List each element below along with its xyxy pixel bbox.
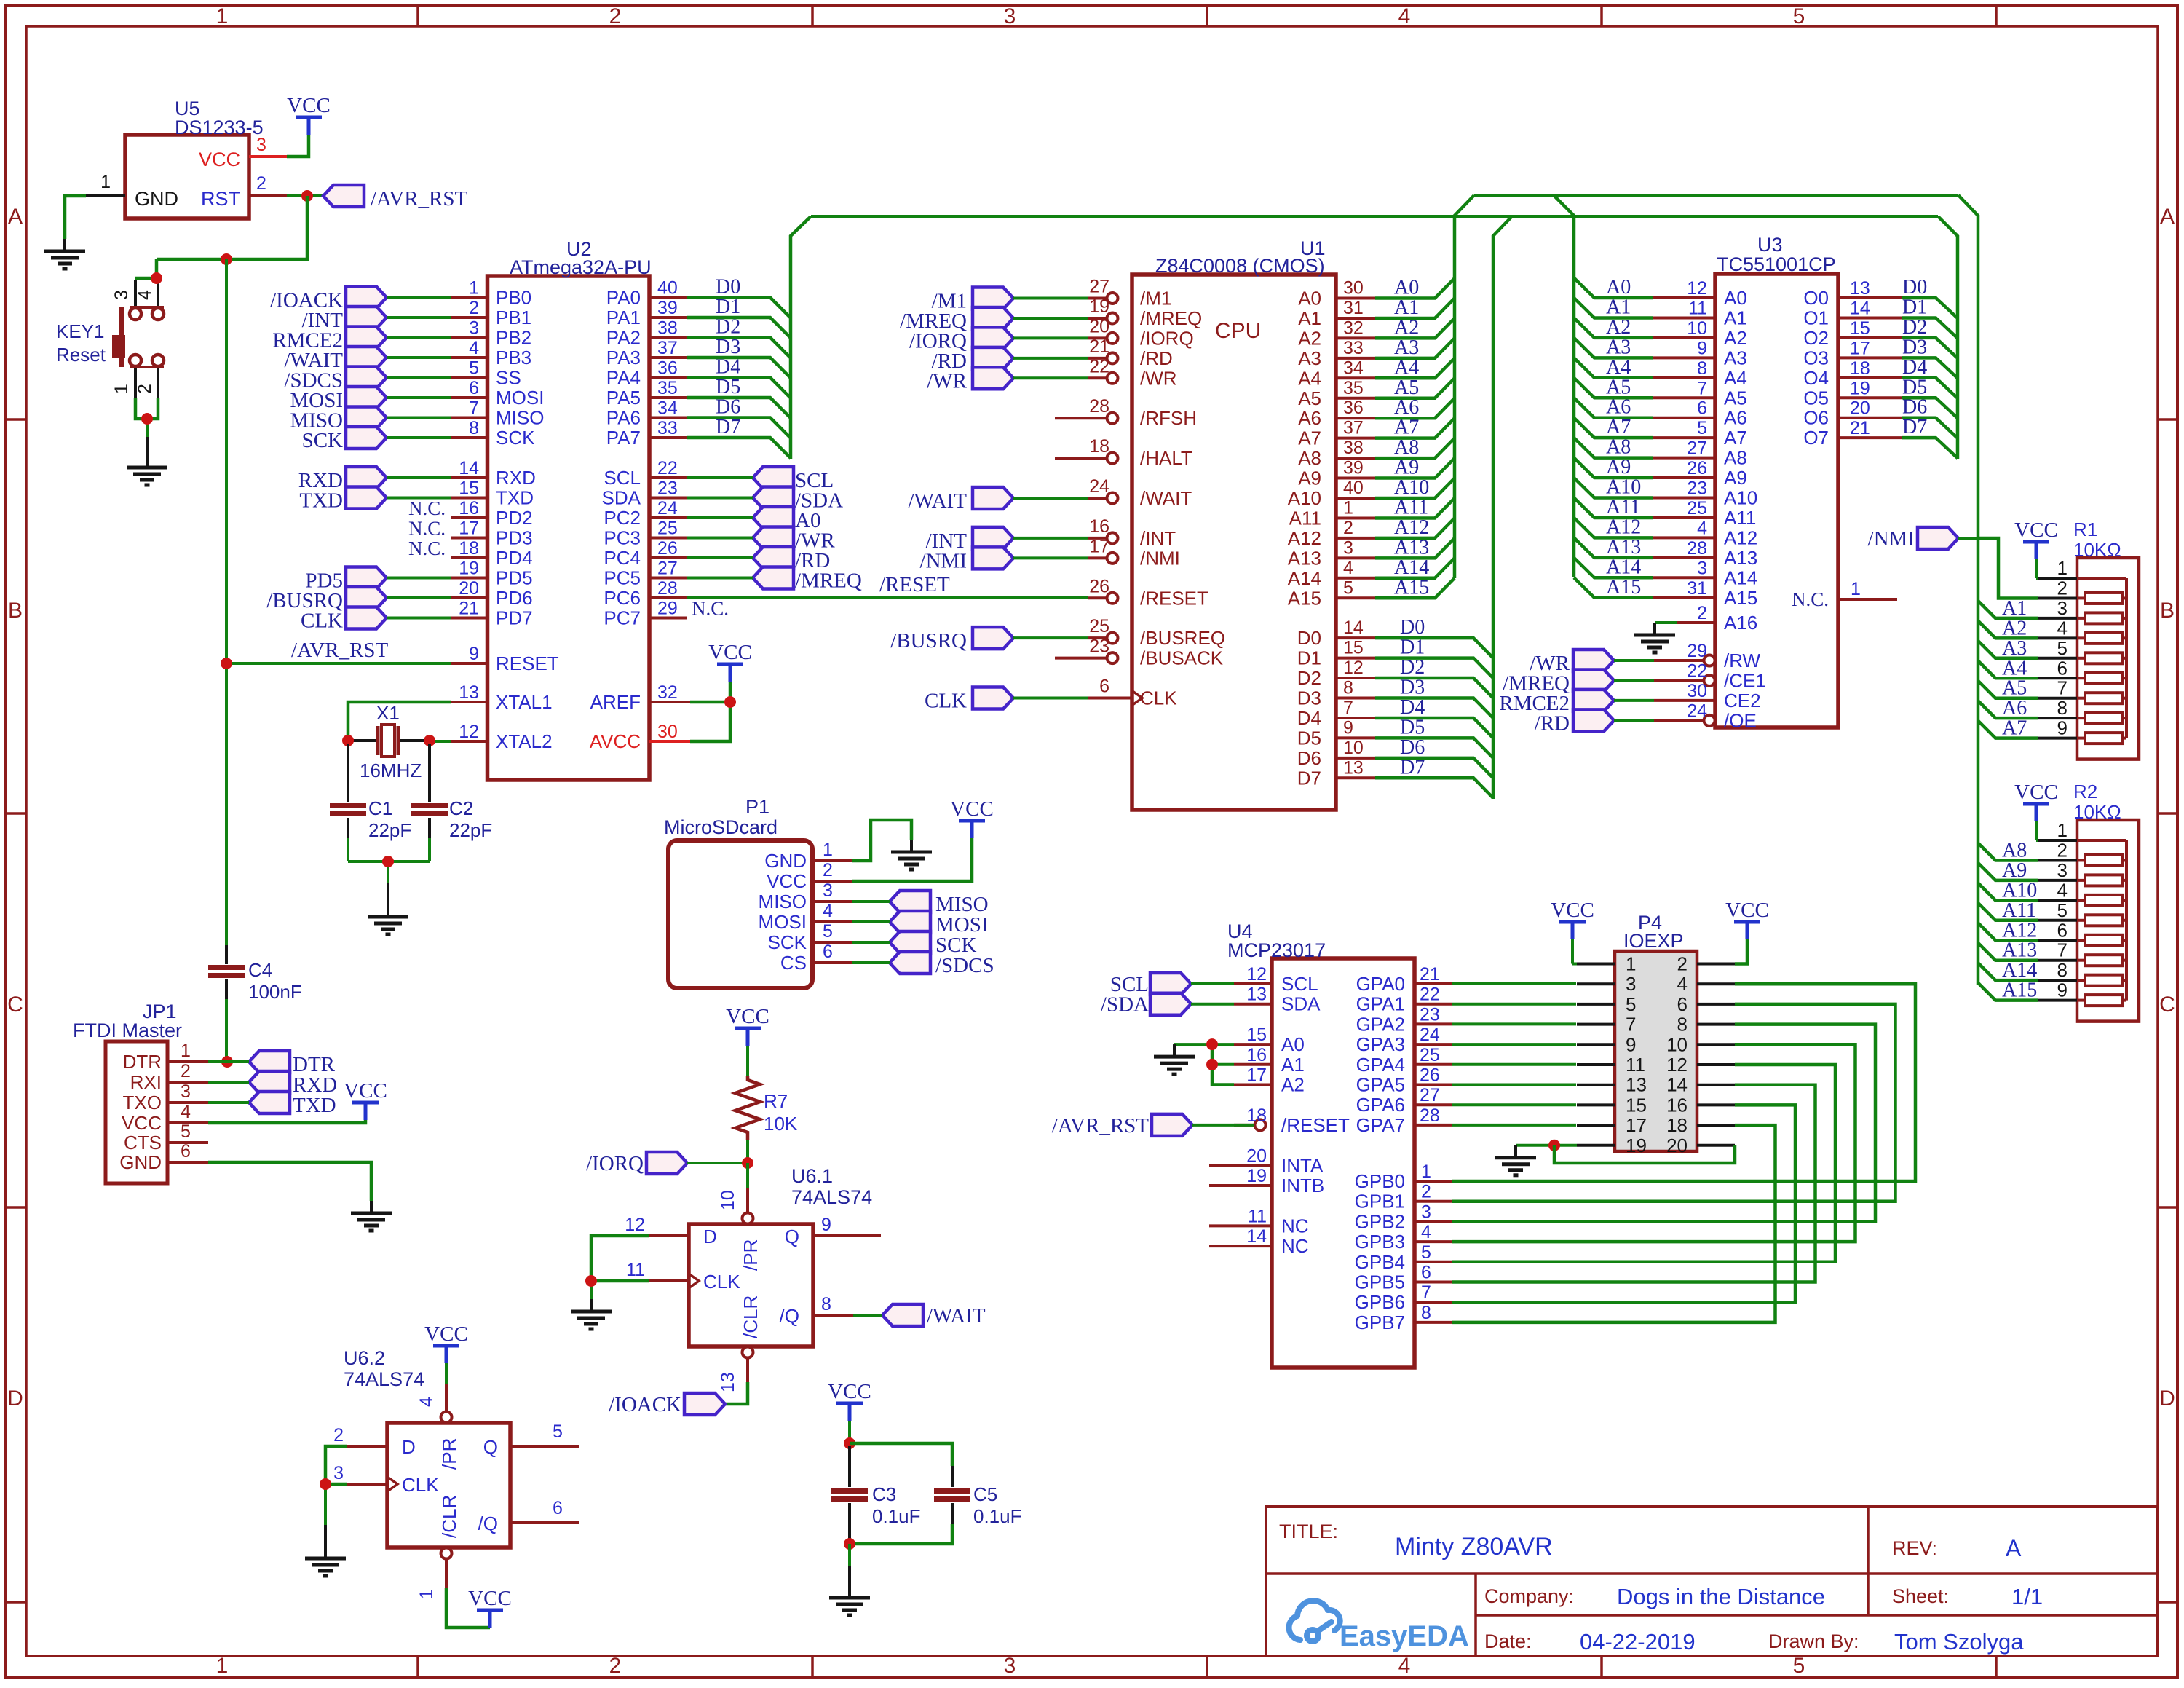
svg-text:D4: D4 (716, 356, 740, 379)
wire D2 from U1 (1375, 678, 1493, 698)
svg-text:/NMI: /NMI (1868, 527, 1915, 551)
U1 pin 30 A0 (1336, 297, 1375, 300)
U2 pin 24 PC2 (649, 516, 687, 519)
U2 pin 23 SDA (649, 497, 687, 500)
svg-text:5: 5 (1421, 1242, 1431, 1263)
U6.1 pin 12 D (649, 1234, 689, 1237)
svg-text:TXD: TXD (293, 1094, 336, 1117)
svg-text:22: 22 (1089, 356, 1109, 376)
wire U2 to /RD flag (687, 556, 753, 559)
svg-text:REV:: REV: (1892, 1537, 1937, 1559)
svg-text:38: 38 (1343, 438, 1364, 458)
svg-text:4: 4 (416, 1397, 437, 1407)
svg-text:X1: X1 (376, 702, 400, 724)
U1 pin 9 D5 (1336, 736, 1375, 739)
svg-text:D6: D6 (716, 396, 740, 419)
wire /IORQ to junction (687, 1162, 748, 1164)
U2 pin 21 PD7 (451, 617, 488, 620)
wire U6.1 /CLR to /IOACK (725, 1382, 748, 1404)
svg-text:A1: A1 (1606, 296, 1631, 318)
wire A14 from U1 (1375, 558, 1455, 577)
svg-text:/NMI: /NMI (920, 549, 967, 572)
svg-text:VCC: VCC (424, 1322, 468, 1346)
svg-text:PD5: PD5 (496, 567, 533, 589)
wire P1 to /SDCS (852, 961, 890, 964)
U1 pin 18 /HALT (1055, 457, 1107, 460)
U1 pin 25 /BUSREQ (1088, 636, 1107, 639)
wire /AVR_RST to U2 RESET (227, 662, 451, 665)
svg-text:PA3: PA3 (606, 347, 641, 368)
svg-text:4: 4 (2057, 879, 2068, 901)
wire P4 pin19 to ground (1516, 1144, 1577, 1147)
wire junction to U6.1 /PR (746, 1163, 749, 1188)
wire U4 GPA3 to P4 (1452, 1043, 1576, 1046)
svg-text:26: 26 (1687, 458, 1707, 478)
svg-text:CLK: CLK (703, 1271, 740, 1293)
U1 pin 39 A9 (1336, 477, 1375, 480)
svg-text:10: 10 (1343, 738, 1364, 758)
svg-text:8: 8 (1421, 1303, 1431, 1323)
svg-text:O6: O6 (1803, 407, 1829, 429)
flag /WR at U3 (1573, 650, 1614, 671)
svg-text:/Q: /Q (478, 1513, 498, 1534)
svg-text:Tom Szolyga: Tom Szolyga (1894, 1629, 2024, 1655)
wire U2 XTAL2 to crystal (430, 740, 451, 743)
op-amp U3 body TC551001CP (1715, 274, 1838, 727)
svg-text:12: 12 (625, 1215, 645, 1235)
U6.2 pin 5 Q (510, 1445, 579, 1448)
svg-text:A9: A9 (1298, 468, 1321, 489)
svg-text:3: 3 (1421, 1202, 1431, 1222)
U4 pin 16 A1 (1234, 1063, 1272, 1066)
svg-text:16MHZ: 16MHZ (360, 760, 422, 781)
svg-text:D3: D3 (716, 336, 740, 358)
wire /SDCS to U2 (387, 376, 451, 379)
flag /BUSRQ at U1 (973, 627, 1013, 649)
svg-text:FTDI Master: FTDI Master (73, 1019, 182, 1041)
svg-text:A7: A7 (2002, 717, 2027, 740)
U3 pin 19 O5 (1838, 396, 1902, 399)
wire D7 from U3 (1902, 438, 1958, 458)
svg-text:GPB7: GPB7 (1355, 1312, 1405, 1333)
U3 pin 12 A0 (1653, 296, 1715, 299)
svg-text:A6: A6 (1606, 396, 1631, 419)
flag /NMI at U1 (973, 547, 1013, 569)
R1 pin 9 (2038, 737, 2077, 740)
flag CLK at U2 (346, 607, 387, 629)
svg-text:MCP23017: MCP23017 (1227, 939, 1326, 961)
svg-text:SCK: SCK (496, 427, 535, 449)
P4 pin 17 (1577, 1124, 1615, 1127)
svg-text:8: 8 (469, 418, 479, 438)
svg-text:8: 8 (2057, 697, 2068, 719)
U1 pin 33 A3 (1336, 357, 1375, 360)
wire P1 to MISO (852, 900, 890, 903)
U1 pin 32 A2 (1336, 336, 1375, 339)
capacitor C1 22pF (347, 744, 349, 802)
svg-text:RXI: RXI (130, 1071, 162, 1093)
JP1 pin 3 TXO (167, 1101, 208, 1104)
U6.2 pin 1 /CLR (441, 1548, 452, 1559)
svg-text:D: D (402, 1436, 416, 1458)
svg-text:D3: D3 (1297, 687, 1321, 709)
svg-text:C2: C2 (449, 797, 473, 819)
svg-text:N.C.: N.C. (408, 497, 446, 519)
wire D3 from U2 PA3 (687, 358, 791, 378)
svg-text:PD3: PD3 (496, 527, 533, 549)
wire /RD to U3 (1614, 719, 1654, 722)
svg-text:MISO: MISO (496, 407, 544, 429)
wire U6.1 /Q to /WAIT (853, 1314, 882, 1317)
svg-text:D0: D0 (1400, 616, 1425, 639)
svg-text:26: 26 (1420, 1065, 1440, 1086)
connector P4 IOEXP body (1615, 951, 1697, 1151)
U4 pin 3 GPB2 (1415, 1220, 1452, 1223)
svg-text:A16: A16 (1724, 612, 1757, 634)
svg-text:VCC: VCC (2014, 518, 2058, 542)
svg-text:38: 38 (657, 318, 678, 339)
svg-text:04-22-2019: 04-22-2019 (1580, 1629, 1696, 1655)
R1 pin 8 (2038, 717, 2077, 719)
svg-text:8: 8 (2057, 959, 2068, 981)
wire A6 to U3 (1574, 398, 1653, 417)
resistor network R2 10KΩ (2077, 820, 2139, 1022)
wire D4 from U1 (1375, 718, 1493, 738)
svg-text:3: 3 (1004, 4, 1016, 28)
R2 pin 5 (2038, 919, 2077, 922)
U4 pin 1 GPB0 (1415, 1180, 1452, 1183)
flag RXD at JP1 (249, 1071, 290, 1093)
svg-text:Drawn By:: Drawn By: (1768, 1630, 1859, 1652)
svg-text:A2: A2 (1281, 1074, 1305, 1096)
svg-text:A0: A0 (1298, 288, 1321, 309)
junction X1 right (424, 735, 435, 746)
svg-text:CLK: CLK (402, 1474, 439, 1496)
svg-text:GPA3: GPA3 (1356, 1033, 1405, 1055)
U6.1 pin 9 Q (813, 1234, 881, 1237)
svg-text:/MREQ: /MREQ (795, 569, 862, 593)
svg-text:11: 11 (626, 1260, 645, 1280)
svg-text:7: 7 (1697, 378, 1707, 398)
svg-text:21: 21 (1089, 336, 1109, 357)
flag /MREQ at U1 (973, 307, 1013, 329)
svg-text:7: 7 (1343, 698, 1353, 718)
wire D0 from U3 (1902, 298, 1958, 318)
ground at X1 caps (387, 904, 389, 917)
svg-text:3: 3 (1697, 558, 1707, 578)
svg-text:1: 1 (2057, 819, 2068, 841)
U4 pin 15 A0 (1234, 1043, 1272, 1046)
U1 pin 15 D1 (1336, 657, 1375, 660)
svg-text:MISO: MISO (759, 891, 807, 912)
svg-text:34: 34 (657, 398, 678, 419)
P1 pin 1 GND (812, 859, 852, 862)
svg-text:3: 3 (256, 135, 266, 155)
U6.1 pin 8 /Q (813, 1314, 853, 1317)
svg-text:28: 28 (1687, 538, 1707, 559)
U1 pin 3 A13 (1336, 556, 1375, 559)
U3 pin 28 A13 (1653, 556, 1715, 559)
svg-text:36: 36 (1343, 398, 1364, 418)
svg-text:14: 14 (1246, 1226, 1267, 1247)
svg-text:3: 3 (333, 1463, 344, 1483)
wire A2 to U3 (1574, 318, 1653, 337)
svg-text:PC2: PC2 (604, 507, 641, 529)
U4 pin 12 SCL (1234, 982, 1272, 985)
svg-text:5: 5 (1626, 993, 1636, 1015)
svg-text:O3: O3 (1803, 347, 1829, 368)
U2 pin 27 PC5 (649, 577, 687, 580)
U4 INTA INTB stubs (1209, 1164, 1234, 1167)
U1 pin 20 /IORQ (1088, 336, 1107, 339)
svg-text:ATmega32A-PU: ATmega32A-PU (510, 256, 652, 278)
svg-text:GND: GND (764, 850, 807, 872)
U3 pin 15 O2 (1838, 336, 1902, 339)
U5 pin 3 VCC (249, 155, 287, 158)
U5 DS1233-5 body (125, 135, 249, 218)
svg-text:/INT: /INT (1140, 527, 1176, 549)
wire A3 to U3 (1574, 338, 1653, 358)
U6.1 pin 10 /PR (746, 1188, 749, 1212)
wire RMCE2 to U2 (387, 336, 451, 339)
svg-text:3: 3 (2057, 859, 2068, 881)
P4 pin 10 (1697, 1043, 1735, 1046)
svg-text:PA7: PA7 (606, 427, 641, 449)
wire P1 VCC pin2 (852, 838, 972, 881)
wire A5 from U1 (1375, 378, 1455, 398)
svg-text:B: B (8, 599, 23, 623)
wire A13 from U1 (1375, 538, 1455, 558)
svg-text:15: 15 (1850, 318, 1870, 339)
wire A5 to U3 (1574, 378, 1653, 398)
svg-text:Date:: Date: (1484, 1630, 1532, 1652)
junction AREF VCC (724, 696, 736, 708)
U3 pin 18 O4 (1838, 376, 1902, 379)
svg-text:18: 18 (1850, 358, 1870, 379)
connector P1 MicroSDcard body (668, 840, 812, 988)
svg-text:D: D (703, 1226, 717, 1247)
svg-text:30: 30 (1687, 681, 1707, 701)
U4 pin 25 GPA4 (1415, 1063, 1452, 1066)
flag SCK at P1 (890, 931, 930, 953)
svg-text:27: 27 (1420, 1085, 1440, 1105)
flag /WR at U2 right (753, 527, 794, 549)
svg-text:VCC: VCC (726, 1005, 769, 1028)
JP1 pin 2 RXI (167, 1081, 208, 1084)
U3 pin 26 A9 (1653, 476, 1715, 479)
R1 pin 4 (2038, 636, 2077, 639)
svg-text:C5: C5 (973, 1483, 997, 1505)
P4 pin 8 (1697, 1023, 1735, 1026)
wire CLK to U2 (387, 617, 451, 620)
wire A15 from U1 (1375, 578, 1455, 598)
P4 pin 15 (1577, 1103, 1615, 1106)
svg-text:A0: A0 (1394, 277, 1419, 299)
wire P1 to MOSI (852, 920, 890, 923)
wire D4 from U2 PA4 (687, 378, 791, 398)
P4 pin 4 (1697, 982, 1735, 985)
svg-text:/BUSREQ: /BUSREQ (1140, 627, 1225, 649)
svg-text:24: 24 (1420, 1025, 1440, 1045)
svg-text:GND: GND (135, 188, 178, 210)
svg-text:A6: A6 (2002, 697, 2027, 719)
svg-text:PD6: PD6 (496, 587, 533, 609)
svg-text:18: 18 (1246, 1105, 1267, 1126)
svg-text:12: 12 (459, 722, 479, 742)
svg-text:40: 40 (1343, 478, 1364, 498)
R2 pin 1 (2038, 839, 2077, 842)
svg-text:/CE1: /CE1 (1724, 669, 1766, 691)
svg-text:A2: A2 (2002, 617, 2027, 639)
svg-text:6: 6 (1421, 1263, 1431, 1283)
svg-text:A12: A12 (1288, 527, 1321, 549)
svg-text:10KΩ: 10KΩ (2073, 539, 2121, 561)
svg-text:R2: R2 (2073, 781, 2097, 802)
svg-text:40: 40 (657, 278, 678, 299)
wire C4 to JP1 DTR (225, 999, 228, 1062)
svg-text:5: 5 (1793, 4, 1805, 28)
svg-text:Sheet:: Sheet: (1892, 1585, 1949, 1607)
svg-text:/WAIT: /WAIT (1140, 487, 1192, 509)
svg-text:SCK: SCK (302, 429, 343, 452)
svg-text:2: 2 (823, 860, 833, 880)
svg-text:15: 15 (1246, 1025, 1267, 1045)
svg-text:C3: C3 (872, 1483, 896, 1505)
U3 pin 31 A15 (1653, 596, 1715, 599)
flag /NMI (1918, 527, 1958, 549)
P4 pin 14 (1697, 1084, 1735, 1086)
wire /BUSRQ to U1 (1013, 636, 1088, 639)
svg-text:1: 1 (1851, 579, 1861, 599)
svg-text:15: 15 (1343, 638, 1364, 658)
svg-text:XTAL1: XTAL1 (496, 691, 553, 713)
junction AVR_RST at RESET wire (221, 658, 232, 669)
svg-text:6: 6 (553, 1498, 563, 1518)
svg-text:PA5: PA5 (606, 387, 641, 409)
U2 pin 22 SCL (649, 476, 687, 479)
svg-text:AREF: AREF (590, 691, 641, 713)
U1 pin 12 D2 (1336, 677, 1375, 679)
wire MOSI to U2 (387, 396, 451, 399)
wire /WR to U1 (1013, 376, 1088, 379)
EasyEDA logo (1289, 1601, 1340, 1641)
wire P1 to SCK (852, 941, 890, 944)
U2 pin 15 TXD (451, 497, 488, 500)
wire U4 GPB6 return loop (1452, 1105, 1795, 1302)
U1 pin 35 A5 (1336, 397, 1375, 400)
svg-text:D4: D4 (1902, 356, 1927, 379)
svg-text:3: 3 (181, 1081, 191, 1102)
flag /WAIT at U2 (346, 347, 387, 368)
svg-text:A14: A14 (1394, 556, 1429, 579)
flag /BUSRQ at U2 (346, 587, 387, 609)
svg-text:2: 2 (256, 173, 266, 194)
ground at U3 A16 (1653, 623, 1656, 635)
svg-text:6: 6 (2057, 657, 2068, 679)
svg-text:/AVR_RST: /AVR_RST (291, 639, 389, 662)
wire D1 from U1 (1375, 658, 1493, 678)
svg-text:A: A (2006, 1535, 2022, 1561)
wire U2 to /MREQ flag (687, 577, 753, 580)
svg-text:O0: O0 (1803, 287, 1829, 309)
junction KEY1 bottom (141, 413, 153, 425)
op-amp U2 body ATmega32A-PU (488, 276, 650, 780)
svg-text:P1: P1 (745, 796, 769, 818)
svg-text:A10: A10 (2002, 879, 2037, 902)
svg-text:1: 1 (416, 1589, 437, 1599)
wire A10 to U3 (1574, 478, 1653, 497)
ground at U5 pin1 (63, 239, 66, 251)
U6.1 pin 11 CLK (649, 1279, 689, 1282)
U3 pin 9 A3 (1653, 356, 1715, 359)
svg-text:NC: NC (1281, 1235, 1309, 1257)
svg-text:9: 9 (469, 644, 479, 664)
U2 pin 17 PD3 (451, 537, 488, 540)
U1 pin 34 A4 (1336, 376, 1375, 379)
svg-text:A0: A0 (1606, 276, 1631, 299)
junction C3 ground (844, 1538, 855, 1550)
svg-text:9: 9 (1697, 338, 1707, 358)
svg-text:/PR: /PR (740, 1239, 761, 1271)
svg-text:A14: A14 (2002, 959, 2037, 982)
svg-text:2: 2 (135, 384, 155, 394)
P1 pin 4 MOSI (812, 920, 852, 923)
svg-text:PA2: PA2 (606, 327, 641, 349)
wire U4 GPB2 return loop (1452, 1025, 1875, 1222)
svg-text:PB1: PB1 (496, 307, 531, 328)
flag MOSI at U2 (346, 387, 387, 409)
svg-text:A10: A10 (1394, 476, 1429, 499)
svg-text:1: 1 (111, 384, 132, 394)
wire U6.1 D and CLK to ground (591, 1236, 649, 1281)
U4 pin 27 GPA6 (1415, 1103, 1452, 1106)
P4 pin 2 (1697, 963, 1735, 966)
svg-text:A10: A10 (1724, 487, 1757, 509)
svg-text:10KΩ: 10KΩ (2073, 801, 2121, 823)
wire U4 GPA7 to P4 (1452, 1124, 1576, 1127)
svg-text:7: 7 (1421, 1282, 1431, 1303)
svg-text:1: 1 (216, 4, 229, 28)
svg-text:D5: D5 (1400, 716, 1425, 738)
U2 pin 30 AVCC (649, 740, 690, 743)
svg-text:28: 28 (1089, 396, 1109, 417)
flag /AVR_RST at U4 (1152, 1114, 1192, 1136)
svg-text:21: 21 (1850, 418, 1870, 438)
wire JP1 VCC pin4 (208, 1120, 365, 1123)
svg-text:25: 25 (1687, 498, 1707, 518)
wire D1 from U2 PA1 (687, 318, 791, 338)
flag DTR at JP1 (249, 1051, 290, 1073)
svg-text:A7: A7 (1606, 416, 1631, 438)
U3 pin 7 A5 (1653, 396, 1715, 399)
svg-text:A4: A4 (2002, 657, 2027, 679)
svg-text:A7: A7 (1394, 417, 1419, 439)
svg-text:A0: A0 (1724, 287, 1747, 309)
svg-text:A12: A12 (1724, 526, 1757, 548)
svg-text:23: 23 (657, 478, 678, 499)
flag RMCE2 at U2 (346, 327, 387, 349)
svg-text:7: 7 (2057, 939, 2068, 961)
svg-text:SDA: SDA (602, 487, 641, 509)
svg-text:A9: A9 (2002, 859, 2027, 882)
ground at U4 address pins (1173, 1044, 1176, 1057)
svg-text:A10: A10 (1606, 476, 1641, 499)
svg-text:22: 22 (657, 458, 678, 478)
wire A8 from U1 (1375, 438, 1455, 458)
svg-text:A3: A3 (1724, 347, 1747, 368)
wire JP1 to TXD (208, 1101, 249, 1104)
wire D3 from U3 (1902, 358, 1958, 378)
